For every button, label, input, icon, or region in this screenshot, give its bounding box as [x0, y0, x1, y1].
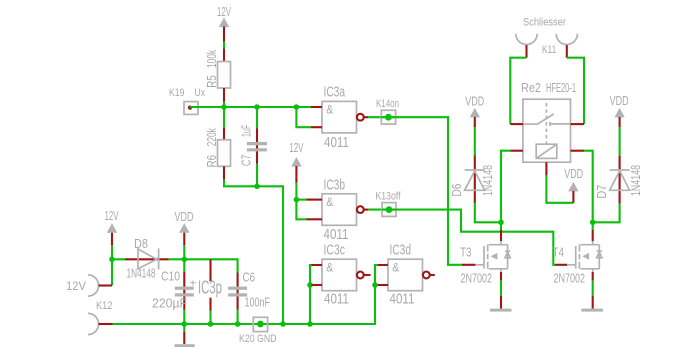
node junction VDD C10 — [182, 257, 188, 263]
op-amp gate IC3c 4011 — [322, 259, 357, 291]
svg-text:&: & — [326, 103, 333, 117]
supply VDD left arrow — [179, 223, 189, 245]
ground symbol main — [175, 324, 195, 347]
supply VDD D6 label — [465, 94, 484, 108]
pin T4 drain — [592, 222, 594, 241]
node junction IC3a branch — [294, 104, 300, 110]
label D8 — [134, 237, 148, 251]
relay Re2 body — [523, 99, 571, 162]
svg-text:+: + — [189, 279, 197, 290]
wire relay coil left to T3 drain — [501, 151, 510, 223]
node junction T4 drain — [590, 220, 596, 226]
label R6 name — [205, 155, 219, 168]
wire K11 right to relay contact — [567, 58, 584, 124]
label Schliesser — [523, 16, 566, 28]
svg-text:1N4148: 1N4148 — [127, 266, 156, 280]
node junction rail IC3c — [307, 321, 313, 327]
pin relay contact left — [510, 123, 523, 125]
wire 12V mid to IC3b inputs — [295, 183, 297, 200]
node junction T3 drain — [498, 220, 504, 226]
label C10 value 220uF — [152, 296, 187, 310]
svg-text:220k: 220k — [205, 128, 219, 146]
label K13off — [376, 190, 402, 202]
transistor T3 2N7002 — [475, 241, 510, 272]
svg-text:K20 GND: K20 GND — [239, 333, 277, 345]
node junction IC3d input2 — [372, 282, 378, 288]
svg-text:Schliesser: Schliesser — [523, 16, 566, 28]
supply VDD relay label — [564, 167, 583, 181]
node junction 12V D8 — [109, 257, 115, 263]
wire K11 left to relay contact — [510, 58, 526, 124]
svg-text:12V: 12V — [105, 209, 119, 223]
svg-text:T3: T3 — [460, 246, 472, 260]
wire D8 cathode to VDD node — [169, 258, 185, 260]
label IC3d value 4011 — [390, 291, 415, 307]
pin IC3b input1 — [307, 199, 323, 201]
node junction rail C6 — [235, 321, 241, 327]
label R6 value 220k — [205, 128, 219, 146]
label K11 — [542, 44, 557, 56]
label IC3b value 4011 — [324, 227, 349, 243]
node junction C7 bottom — [254, 184, 260, 190]
supply VDD relay arrow — [568, 182, 578, 203]
label D8 value 1N4148 — [127, 266, 156, 280]
wire IC3d input2 stub — [375, 284, 378, 286]
svg-text:Re2: Re2 — [521, 81, 541, 95]
label T4 — [553, 246, 565, 260]
label IC3a value 4011 — [324, 135, 349, 151]
svg-text:2N7002: 2N7002 — [554, 271, 586, 285]
svg-text:D8: D8 — [134, 237, 148, 251]
label D7 value 1N4148 — [629, 165, 643, 196]
pin IC3b input2 — [307, 218, 323, 220]
node junction IC3b inputs — [294, 197, 300, 203]
pin IC3c input1 — [312, 264, 323, 266]
wire C10 top — [183, 259, 185, 272]
transistor T4 2N7002 — [567, 241, 602, 272]
label C10 plus — [189, 279, 197, 290]
wire branch to IC3a input2 — [296, 107, 311, 127]
ground T4 — [581, 296, 603, 312]
svg-text:K11: K11 — [542, 44, 557, 56]
svg-text:100nF: 100nF — [245, 295, 271, 309]
op-amp gate IC3a 4011 — [322, 101, 357, 132]
pin IC3c output bubble — [357, 272, 371, 279]
wire C7 top — [256, 107, 258, 128]
svg-text:4011: 4011 — [324, 227, 349, 243]
label D6 — [450, 184, 464, 197]
pad K20 — [253, 317, 267, 331]
svg-text:12V: 12V — [289, 141, 303, 155]
wire 12V left down — [111, 245, 113, 285]
pin IC3d output bubble — [423, 272, 435, 279]
wire IC3b input1 — [296, 199, 306, 201]
svg-text:&: & — [326, 260, 333, 274]
pin T4 source — [592, 272, 594, 281]
capacitor C7 — [247, 128, 267, 163]
supply VDD D7 label — [610, 94, 629, 108]
wire VDD to D7 — [619, 127, 621, 156]
pin T4 gate — [555, 264, 567, 266]
wire R5 junction to R6 — [223, 102, 225, 128]
svg-text:4011: 4011 — [324, 291, 349, 307]
ground T3 — [490, 296, 512, 312]
connector K11 pin1 arc — [516, 34, 537, 58]
svg-text:C6: C6 — [243, 270, 256, 284]
pin IC3d input2 — [378, 284, 388, 286]
svg-text:VDD: VDD — [465, 94, 484, 108]
node junction rail C10 — [182, 321, 188, 327]
label T3 — [460, 246, 472, 260]
label K20 GND — [239, 333, 277, 345]
label C7 name — [240, 155, 254, 167]
label IC3p — [198, 278, 222, 298]
svg-text:4011: 4011 — [324, 135, 349, 151]
label K19 — [169, 87, 185, 99]
diode D8 — [125, 248, 169, 269]
wire IC3c input2 stub — [310, 284, 312, 286]
wire VDD stem down — [183, 245, 185, 259]
svg-text:220µF: 220µF — [152, 296, 187, 310]
pin T3 source — [500, 272, 502, 281]
svg-text:1N4148: 1N4148 — [481, 165, 495, 196]
wire C6 bottom — [237, 310, 239, 325]
pin relay coil right — [571, 150, 585, 152]
wire T4 source to ground — [592, 281, 594, 296]
label 12V K12 — [66, 281, 86, 293]
pin IC3b output bubble — [357, 206, 369, 213]
wire D6 to T3 drain junction — [475, 203, 501, 222]
svg-text:12V: 12V — [66, 281, 86, 293]
pin IC3a input2 — [311, 126, 322, 128]
op-amp gate IC3d 4011 — [388, 259, 423, 291]
pin relay coil bottom — [545, 162, 547, 175]
svg-text:VDD: VDD — [564, 167, 583, 181]
svg-text:Ux: Ux — [195, 87, 206, 99]
wire K19 to IC3a input1 — [190, 106, 311, 108]
svg-text:K14on: K14on — [376, 98, 399, 110]
pin IC3d input1 — [378, 264, 388, 266]
pad K13off — [382, 203, 396, 217]
pin IC3a output bubble — [357, 114, 368, 121]
label Ux — [195, 87, 206, 99]
svg-text:K13off: K13off — [376, 190, 402, 202]
pin relay coil left — [510, 150, 523, 152]
supply 12V top arrow — [219, 18, 229, 42]
pad K19 — [184, 102, 198, 115]
wire R6 C7 bottom to column — [224, 180, 283, 324]
wire T3 source to ground — [500, 281, 502, 296]
svg-text:D7: D7 — [595, 185, 609, 199]
supply 12V left arrow — [107, 223, 117, 245]
wire 12V to R5 — [223, 42, 225, 49]
svg-text:IC3b: IC3b — [324, 177, 346, 193]
svg-text:4011: 4011 — [390, 291, 415, 307]
svg-text:D6: D6 — [450, 184, 464, 197]
svg-text:K19: K19 — [169, 87, 185, 99]
svg-text:1N4148: 1N4148 — [629, 165, 643, 196]
wire relay coil right to T4 drain — [584, 151, 593, 223]
svg-text:&: & — [392, 260, 399, 274]
label Re2 — [521, 81, 541, 95]
svg-text:R6: R6 — [205, 155, 219, 168]
svg-text:C10: C10 — [161, 269, 180, 283]
svg-text:IC3p: IC3p — [198, 278, 222, 298]
label T4 value 2N7002 — [554, 271, 586, 285]
capacitor C6 — [228, 273, 247, 310]
label C7 value 1uF — [240, 124, 254, 137]
connector K12 pin2 arc — [88, 313, 113, 334]
svg-text:T4: T4 — [553, 246, 565, 260]
label HFE20-1 — [546, 81, 576, 95]
svg-text:&: & — [326, 195, 333, 209]
svg-text:12V: 12V — [217, 5, 231, 19]
wire relay coil bottom to VDD — [546, 175, 573, 202]
label D6 value 1N4148 — [481, 165, 495, 196]
diode D7 — [610, 156, 630, 204]
wire IC3c inputs column — [310, 265, 312, 324]
label C10 — [161, 269, 180, 283]
svg-text:R5: R5 — [205, 75, 219, 88]
svg-text:C7: C7 — [240, 155, 254, 167]
node junction rail IC3p — [208, 321, 214, 327]
node junction C7 row — [254, 104, 260, 110]
label IC3b — [324, 177, 346, 193]
node junction R5 row — [221, 104, 227, 110]
supply VDD D7 arrow — [614, 108, 624, 127]
supply 12V top label — [217, 5, 231, 19]
label C6 value 100nF — [245, 295, 271, 309]
connector K12 pin1 arc — [88, 275, 112, 296]
diode D6 — [465, 156, 485, 203]
wire K14on net to T3 gate — [381, 117, 462, 265]
connector K11 pin2 arc — [556, 34, 577, 58]
wire VDD to D6 — [474, 127, 476, 156]
resistor R6 — [218, 128, 231, 180]
svg-text:HFE20-1: HFE20-1 — [546, 81, 576, 95]
wire ground rail — [113, 265, 379, 324]
label C6 — [243, 270, 256, 284]
supply VDD left label — [175, 210, 194, 224]
label IC3c — [324, 242, 346, 258]
capacitor C10 — [175, 272, 194, 310]
svg-text:1uF: 1uF — [240, 124, 254, 137]
wire IC3b out to K13off — [368, 209, 396, 211]
supply 12V mid label — [289, 141, 303, 155]
wire K13off net to T4 gate — [382, 210, 555, 265]
wire IC3p GND pin to rail — [209, 311, 211, 324]
wire C10 bottom — [183, 310, 185, 325]
svg-text:VDD: VDD — [610, 94, 629, 108]
pin relay contact right — [571, 123, 585, 125]
supply 12V mid arrow — [291, 157, 301, 183]
svg-text:K12: K12 — [96, 300, 113, 312]
svg-text:IC3d: IC3d — [390, 242, 412, 258]
label R5 value 100k — [205, 49, 219, 67]
supply 12V left label — [105, 209, 119, 223]
label IC3c value 4011 — [324, 291, 349, 307]
svg-text:VDD: VDD — [175, 210, 194, 224]
node junction IC3c input2 — [307, 282, 313, 288]
wire IC3b input2 branch — [296, 200, 306, 220]
pin IC3a input1 — [311, 106, 322, 108]
pin T3 drain — [500, 222, 502, 241]
resistor R5 — [218, 49, 231, 102]
op-amp gate IC3b 4011 — [322, 194, 357, 226]
wire VDD node to C6 column — [184, 259, 237, 272]
pin IC3c input2 — [312, 284, 323, 286]
wire C7 bottom — [256, 164, 258, 187]
node junction rail R6C7 — [280, 321, 286, 327]
label IC3a — [324, 85, 346, 101]
label IC3d — [390, 242, 412, 258]
svg-text:IC3a: IC3a — [324, 85, 346, 101]
pin T3 gate — [462, 264, 475, 266]
label D7 — [595, 185, 609, 199]
wire D7 to T4 drain junction — [593, 204, 620, 223]
pad K14on — [381, 110, 395, 124]
label T3 value 2N7002 — [461, 271, 493, 285]
part IC3p power pins — [209, 260, 211, 311]
supply VDD D6 arrow — [470, 108, 480, 127]
wire D8 anode stub — [112, 258, 125, 260]
svg-text:2N7002: 2N7002 — [461, 271, 493, 285]
label R5 name — [205, 75, 219, 88]
label K12 — [96, 300, 113, 312]
svg-text:100k: 100k — [205, 49, 219, 67]
svg-text:IC3c: IC3c — [324, 242, 346, 258]
wire IC3a out to K14on — [368, 116, 396, 118]
label K14on — [376, 98, 399, 110]
